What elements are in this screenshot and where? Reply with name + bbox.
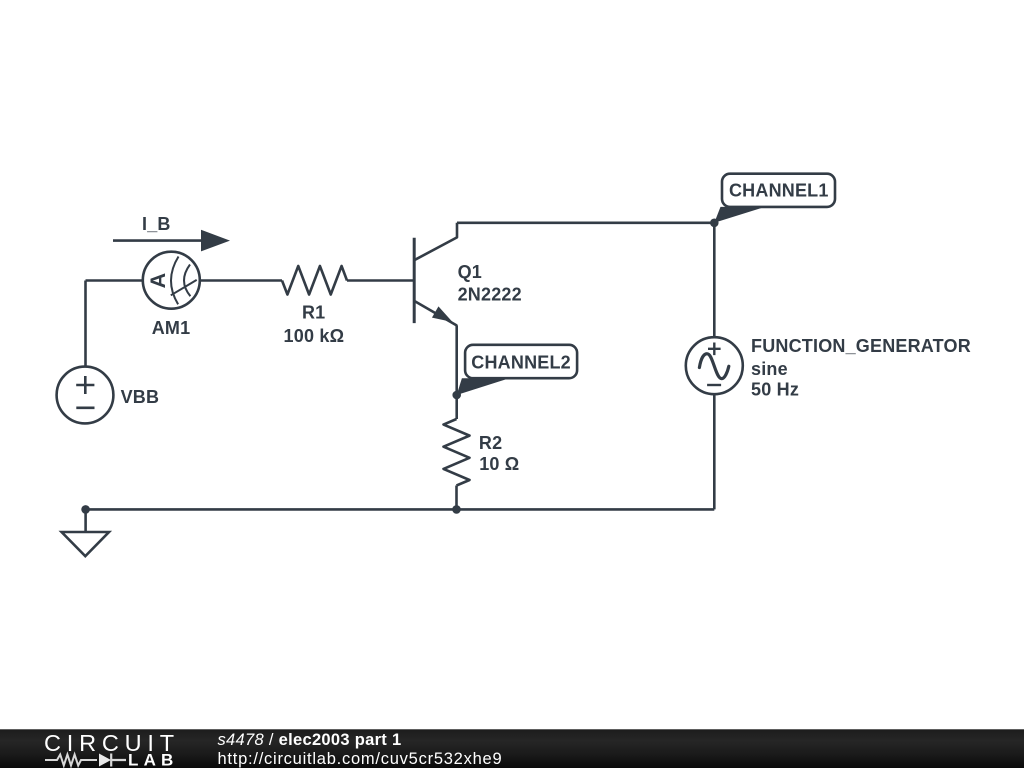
wire	[347, 279, 414, 282]
svg-text:10 Ω: 10 Ω	[479, 454, 519, 474]
node A (CHANNEL1 junction)	[710, 219, 719, 228]
svg-text:s4478 / elec2003 part 1: s4478 / elec2003 part 1	[218, 731, 402, 749]
svg-text:100 kΩ: 100 kΩ	[284, 326, 345, 346]
svg-text:http://circuitlab.com/cuv5cr53: http://circuitlab.com/cuv5cr532xhe9	[218, 750, 503, 768]
label FUNCTION_GENERATOR	[751, 336, 971, 400]
svg-text:CHANNEL1: CHANNEL1	[729, 181, 829, 201]
current arrow I_B	[113, 214, 230, 251]
label R2 value	[479, 433, 520, 474]
ground	[62, 509, 109, 556]
label R1 value	[284, 303, 345, 346]
svg-text:FUNCTION_GENERATOR: FUNCTION_GENERATOR	[751, 336, 971, 356]
resistor R2	[444, 419, 470, 486]
svg-text:LAB: LAB	[128, 750, 179, 768]
label Q1 value	[458, 262, 522, 304]
svg-text:VBB: VBB	[121, 387, 160, 407]
label AM1	[152, 318, 191, 338]
ammeter AM1	[143, 252, 200, 309]
svg-text:CHANNEL2: CHANNEL2	[471, 352, 571, 372]
footer bar	[0, 729, 1024, 768]
function generator V1	[686, 337, 743, 394]
svg-text:50 Hz: 50 Hz	[751, 379, 799, 399]
wire	[86, 279, 283, 282]
svg-text:2N2222: 2N2222	[458, 284, 522, 304]
wire	[455, 486, 458, 510]
flag CHANNEL1	[714, 174, 835, 223]
svg-text:Q1: Q1	[458, 262, 482, 282]
node B (CHANNEL2 junction)	[452, 391, 461, 400]
wire	[455, 325, 458, 419]
transistor Q1	[414, 223, 457, 326]
wire	[84, 281, 87, 368]
svg-text:I_B: I_B	[142, 214, 171, 234]
svg-text:sine: sine	[751, 359, 788, 379]
node D (ground junction)	[81, 505, 90, 514]
wire	[713, 223, 716, 510]
resistor R1	[282, 266, 347, 295]
label VBB	[121, 387, 160, 407]
svg-text:AM1: AM1	[152, 318, 191, 338]
CircuitLab logo	[44, 730, 180, 768]
svg-text:R1: R1	[302, 303, 325, 323]
svg-text:A: A	[146, 273, 170, 289]
wire	[86, 508, 715, 511]
node C (R2 bottom junction)	[452, 505, 461, 514]
footer title text	[218, 731, 503, 768]
svg-text:R2: R2	[479, 433, 502, 453]
voltage source VBB	[57, 367, 114, 424]
flag CHANNEL2	[457, 345, 577, 395]
wire	[457, 222, 714, 225]
